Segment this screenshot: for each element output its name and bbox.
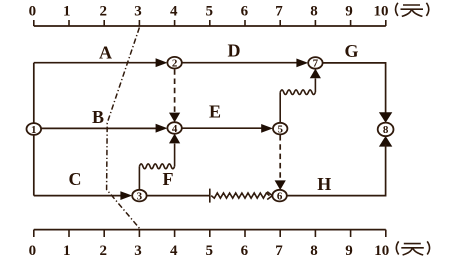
svg-text:5: 5 [277, 123, 283, 135]
svg-text:10: 10 [374, 4, 389, 20]
svg-text:9: 9 [345, 243, 353, 259]
svg-text:A: A [99, 43, 112, 63]
svg-text:0: 0 [29, 243, 37, 259]
svg-text:E: E [209, 102, 221, 122]
svg-text:3: 3 [137, 190, 143, 202]
svg-text:10: 10 [374, 243, 389, 259]
svg-text:4: 4 [170, 243, 178, 259]
svg-text:3: 3 [134, 243, 142, 259]
svg-text:1: 1 [63, 243, 71, 259]
svg-text:8: 8 [310, 243, 318, 259]
svg-text:6: 6 [241, 4, 249, 20]
svg-text:1: 1 [31, 124, 37, 136]
svg-text:6: 6 [241, 243, 249, 259]
svg-text:0: 0 [29, 4, 37, 20]
svg-text:G: G [344, 41, 358, 61]
svg-text:F: F [163, 169, 174, 189]
svg-text:4: 4 [172, 123, 178, 135]
svg-text:C: C [69, 169, 82, 189]
svg-text:6: 6 [277, 190, 283, 202]
svg-text:9: 9 [345, 4, 353, 20]
svg-text:2: 2 [99, 243, 107, 259]
svg-text:8: 8 [310, 4, 318, 20]
svg-text:3: 3 [134, 4, 142, 20]
svg-text:8: 8 [383, 124, 389, 136]
svg-text:7: 7 [313, 58, 319, 70]
svg-text:B: B [92, 107, 104, 127]
svg-text:2: 2 [172, 58, 178, 70]
svg-text:5: 5 [205, 243, 213, 259]
svg-text:D: D [228, 41, 241, 61]
svg-text:5: 5 [205, 4, 213, 20]
svg-text:1: 1 [63, 4, 71, 20]
svg-text:2: 2 [99, 4, 107, 20]
svg-text:4: 4 [170, 4, 178, 20]
svg-text:H: H [317, 174, 331, 194]
svg-text:7: 7 [275, 4, 283, 20]
svg-text:7: 7 [275, 243, 283, 259]
